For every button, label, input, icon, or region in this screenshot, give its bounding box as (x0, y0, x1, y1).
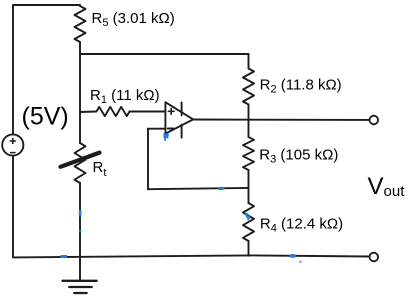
op-amp - input symbol (168, 128, 174, 130)
wire R2 to output node (248, 105, 250, 138)
svg-text:R5 (3.01 kΩ): R5 (3.01 kΩ) (92, 10, 175, 29)
wire feedback bottom to R3/R4 node (148, 188, 249, 189)
wire bottom rail (13, 255, 369, 257)
source V1 (5V) (2, 134, 23, 155)
wire top from left rail to R5 (13, 4, 80, 6)
terminal output top (370, 116, 379, 125)
svg-text:Vout: Vout (368, 173, 406, 200)
annotation blue mark on R4 (244, 212, 251, 221)
wire R4 to bottom rail (248, 241, 250, 256)
annotation blue mark on bottom rail left (61, 255, 68, 258)
wire Rt to bottom rail (79, 183, 81, 256)
ground bar 2 (69, 286, 92, 288)
wire R2 branch down (248, 54, 250, 69)
wire main column R5 to Rt (79, 42, 81, 143)
wire op-amp output (193, 119, 369, 121)
resistor R4 (243, 203, 254, 241)
svg-text:R3 (105 kΩ): R3 (105 kΩ) (259, 147, 338, 166)
wire left rail (12, 5, 14, 257)
annotation blue mark on bottom rail right (289, 254, 296, 258)
terminal output bottom (370, 253, 379, 262)
ground stem (79, 256, 81, 281)
svg-text:(5V): (5V) (22, 103, 69, 131)
svg-text:R4 (12.4 kΩ): R4 (12.4 kΩ) (260, 215, 343, 234)
resistor R5 (75, 6, 86, 42)
wire R3 to feedback node (248, 170, 250, 203)
resistor Rt (thermistor) (75, 143, 86, 183)
wire op-amp - input stub (148, 128, 165, 130)
op-amp power pin bottom (181, 125, 183, 138)
wire node to R2 branch (80, 53, 249, 55)
op-amp + input symbol (168, 109, 174, 115)
annotation blue mark on ground column (79, 210, 82, 217)
op-amp power pin top (181, 102, 183, 115)
wire feedback left vertical (147, 129, 149, 190)
annotation blue arrow at op-amp corner (163, 133, 169, 141)
svg-text:R2 (11.8 kΩ): R2 (11.8 kΩ) (260, 76, 342, 95)
resistor R1 (97, 107, 130, 116)
annotation blue dot ground column top (79, 230, 81, 232)
svg-text:R1 (11 kΩ): R1 (11 kΩ) (90, 87, 160, 106)
thermistor slash (61, 153, 100, 167)
svg-text:Rt: Rt (93, 159, 107, 179)
resistor R2 (243, 69, 254, 105)
ground bar 1 (63, 280, 97, 282)
annotation blue mark on feedback wire (217, 187, 224, 191)
wire R1 left lead (80, 111, 97, 114)
resistor R3 (243, 137, 254, 170)
wire R1 to op-amp + input (130, 111, 166, 113)
ground bar 3 (74, 292, 87, 294)
op-amp U1 (165, 102, 193, 133)
annotation blue dot below rail (299, 261, 301, 263)
